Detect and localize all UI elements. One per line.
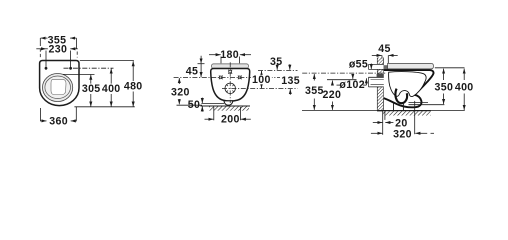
inlet connector block — [384, 65, 390, 70]
top edge extension for 480 — [80, 60, 134, 62]
bowl bottom ext for 50 — [201, 102, 224, 104]
drain circle — [225, 83, 235, 93]
wc body outline top view — [40, 61, 79, 106]
axis-to-pipe marker arrow — [352, 74, 354, 79]
dim 320 right ext — [414, 101, 416, 134]
dim 400 vertical — [110, 69, 112, 84]
dim 360 row — [40, 120, 46, 122]
trap bend thick U — [395, 89, 407, 104]
dim 230 row — [36, 48, 46, 50]
svg-text:45: 45 — [186, 66, 198, 78]
vertical centerline — [229, 62, 231, 103]
dash-dot C (drain axis) — [222, 88, 298, 90]
outlet pipe ø102 through wall — [369, 77, 395, 87]
dim 355 vertical — [313, 74, 315, 81]
bowl rim + outer profile — [384, 70, 434, 107]
dash-dot A (top hole axis) — [258, 69, 298, 71]
dim 50 arrows — [201, 98, 203, 104]
label 135 — [280, 76, 301, 85]
svg-text:355: 355 — [305, 85, 324, 97]
pipe top ext line — [327, 79, 357, 81]
svg-text:180: 180 — [220, 49, 239, 61]
dim 355 extension dashed — [39, 49, 41, 58]
floor line right — [302, 110, 465, 112]
svg-text:35: 35 — [270, 56, 282, 68]
pipe offset ext below ground — [384, 111, 386, 120]
dash-dot B (fixing holes axis) — [174, 76, 296, 78]
floor hatch right — [382, 111, 430, 115]
svg-text:ø102: ø102 — [339, 79, 365, 91]
floor hatch middle — [209, 107, 249, 111]
dims of left view — [36, 38, 135, 121]
lid slab — [388, 63, 434, 69]
svg-text:320: 320 — [393, 128, 412, 140]
bolt axis dash-dot — [302, 72, 386, 74]
svg-text:200: 200 — [221, 114, 240, 126]
wall face ext below ground — [382, 111, 384, 135]
dim 480 vertical — [132, 61, 134, 81]
dim 35 arrows — [276, 64, 278, 70]
dim 230 extensions to hinge dots — [45, 51, 47, 68]
seat top extension for 305 — [63, 73, 95, 75]
center top hole with cross — [228, 70, 232, 74]
fixing hole right — [238, 76, 242, 80]
label 100 — [251, 75, 272, 84]
svg-text:50: 50 — [188, 99, 200, 111]
outlet foot bump — [224, 101, 233, 105]
inner bowl cavity — [389, 72, 426, 97]
seat bar — [211, 64, 248, 68]
right view dims — [302, 55, 464, 134]
dim 305 vertical — [90, 75, 92, 84]
bottom extension line — [74, 106, 134, 108]
dim 200 extensions — [213, 107, 215, 120]
svg-text:ø55: ø55 — [349, 59, 368, 71]
dim 180 extensions — [220, 57, 222, 64]
lower mounting block — [384, 90, 391, 98]
svg-text:400: 400 — [102, 83, 121, 95]
wall hatched strip — [377, 58, 383, 111]
svg-text:100: 100 — [252, 74, 271, 86]
dim 320 mid vertical — [178, 78, 180, 84]
seat inner oval — [45, 76, 71, 99]
svg-text:480: 480 — [124, 81, 143, 93]
dim 20 row — [373, 122, 383, 124]
vertical floor pipe — [393, 103, 395, 115]
bowl opening rounded square — [51, 80, 66, 95]
svg-text:320: 320 — [171, 86, 190, 98]
svg-text:45: 45 — [378, 43, 390, 55]
foot top ext line — [409, 102, 429, 104]
dim 45 mid: ext tick + line — [198, 63, 205, 65]
dim 135 vertical — [289, 89, 291, 95]
svg-text:360: 360 — [49, 115, 68, 127]
bowl bottom ext line — [409, 104, 445, 106]
dim 180 row — [209, 54, 221, 56]
dim 100 vertical — [261, 71, 263, 75]
svg-text:350: 350 — [435, 82, 454, 94]
fixing hole left — [219, 76, 223, 80]
svg-text:400: 400 — [455, 82, 474, 94]
dim 360 extensions — [39, 108, 41, 121]
svg-text:135: 135 — [281, 75, 300, 87]
seat outer oval — [43, 74, 73, 102]
dim 320 row — [371, 132, 383, 134]
dim 400 vertical — [463, 69, 465, 80]
drain circle ticks — [227, 85, 234, 92]
middle view dims — [174, 55, 298, 121]
dim 350 vertical — [443, 69, 445, 80]
inlet pipe through wall — [369, 64, 384, 69]
bowl front outline — [211, 69, 250, 102]
rim top ext line — [435, 67, 465, 69]
ground ext left — [177, 104, 203, 106]
hinge dot right — [69, 67, 72, 70]
dim 45 right row — [372, 54, 382, 56]
svg-text:230: 230 — [49, 43, 68, 55]
label ø55 leader arrow — [370, 64, 372, 70]
svg-text:305: 305 — [82, 83, 101, 95]
floor line middle — [201, 105, 251, 107]
dim 220 vertical — [331, 81, 333, 86]
hinge dot left — [45, 67, 48, 70]
fixing bolt through wall — [377, 74, 393, 77]
dim 200 row — [205, 118, 214, 120]
dim 355 row — [41, 37, 48, 39]
hinge axis dash-dot line — [64, 67, 114, 69]
ø102 leader dashes + hook arrow — [337, 84, 342, 86]
